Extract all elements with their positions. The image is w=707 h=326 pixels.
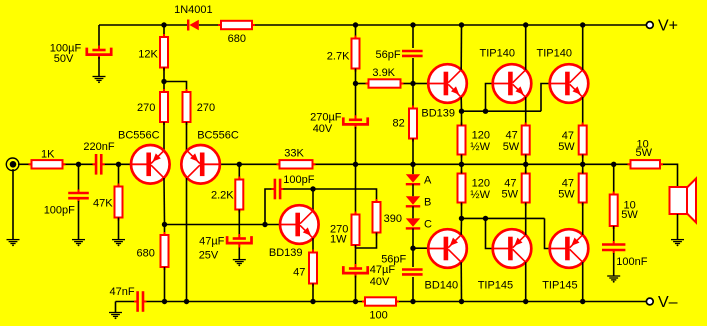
svg-text:47K: 47K [93, 198, 113, 210]
svg-text:47nF: 47nF [110, 286, 135, 298]
node BD139 collector top [310, 186, 315, 191]
wire jack to ground [12, 169, 14, 240]
svg-text:½W: ½W [470, 141, 490, 153]
wire node to BD139 upper base [413, 83, 428, 85]
resistor 1K [29, 163, 66, 165]
svg-text:100pF: 100pF [44, 205, 75, 217]
node top rail 2.7K [353, 22, 358, 27]
svg-text:40V: 40V [313, 123, 333, 135]
node 56pF bottom rail [410, 299, 415, 304]
capacitor 220nF [93, 163, 97, 165]
capacitor 100nF [613, 241, 615, 245]
node top rail TIP140-1 [523, 22, 528, 27]
node mid rail 120 [459, 162, 464, 167]
node input R1K right [76, 162, 81, 167]
wire R 47K to ground [118, 218, 120, 240]
wire C 100nF to ground [613, 253, 615, 276]
svg-text:100nF: 100nF [616, 256, 647, 268]
svg-text:40V: 40V [370, 276, 390, 288]
wire bottom V- rail [116, 301, 135, 303]
svg-text:5W: 5W [503, 141, 520, 153]
resistor 680 bottom [164, 232, 166, 270]
node 2.7K bottom [353, 81, 358, 86]
node 220nF right [116, 162, 121, 167]
wire BD140 emitter up to node [460, 218, 462, 234]
capacitor 100pF input [78, 190, 80, 194]
svg-text:V+: V+ [658, 18, 678, 35]
wire R 82 to mid rail [412, 139, 414, 165]
wire R 680 to bottom rail [164, 267, 166, 302]
diode 1N4001 [187, 20, 189, 31]
terminal V- [646, 298, 653, 305]
wire BD139 collector to rail [460, 25, 462, 70]
svg-text:1W: 1W [330, 234, 347, 246]
capacitor 56pF bottom [402, 268, 423, 271]
capacitor 270uF 40V [355, 115, 357, 120]
wire down to TIP145-1 base [486, 218, 493, 248]
node BD140 base [410, 246, 415, 251]
wire rail to R 12K [163, 25, 165, 37]
wire R 3.9K to 56pF node [402, 83, 413, 85]
node bottom rail TIP145-1 [523, 299, 528, 304]
node bottom rail BD140 [459, 299, 464, 304]
wire R 12K to node [163, 68, 165, 82]
wire rail to C 56pF top [412, 25, 414, 48]
node mid rail diodes [410, 162, 415, 167]
resistor 100 [362, 301, 399, 303]
svg-text:47µF: 47µF [199, 236, 225, 248]
wire node down to R 680 [164, 225, 166, 236]
wire 47 bot second to TIP145-2 emitter [582, 203, 584, 235]
svg-text:680: 680 [137, 248, 155, 260]
node 47 bottom rail [310, 299, 315, 304]
node TIP145 base branch [483, 216, 488, 221]
svg-text:TIP140: TIP140 [537, 48, 572, 60]
resistor 47 [312, 250, 314, 287]
capacitor 100uF 50V [98, 46, 100, 51]
wire 47 top first to mid rail [525, 155, 527, 165]
ground under speaker [671, 239, 684, 241]
wire 390 to bootstrap node [356, 233, 377, 249]
resistor 120 half-watt bottom [461, 171, 463, 206]
wire mid rail to 47 bot first [525, 164, 527, 173]
wire R 2.2K to C 47uF [238, 210, 240, 237]
svg-text:3.9K: 3.9K [372, 67, 395, 79]
resistor 47K [118, 184, 120, 221]
resistor 390 [376, 199, 378, 236]
resistor 47 5W top second [582, 123, 584, 158]
svg-text:TIP145: TIP145 [478, 279, 513, 291]
svg-text:B: B [424, 197, 431, 209]
transistor TIP140 first [493, 64, 532, 103]
node 100pF branch [262, 222, 267, 227]
wire 100pF branch up [265, 189, 272, 225]
node top rail x164 [161, 22, 166, 27]
ground under 100uF [93, 76, 106, 78]
wire 270 left to Q1 emitter [163, 122, 165, 151]
svg-text:A: A [424, 175, 432, 187]
svg-text:C: C [424, 219, 432, 231]
wire node to C 270uF [355, 84, 357, 118]
wire input/output mid rail [18, 163, 32, 165]
svg-text:5W: 5W [636, 147, 653, 159]
svg-text:12K: 12K [138, 48, 158, 60]
wire top V+ rail [99, 24, 187, 26]
svg-text:82: 82 [393, 117, 405, 129]
wire Q1 collector down [163, 178, 166, 225]
ground under 100pF [72, 239, 85, 241]
node bottom rail TIP145-2 [580, 299, 585, 304]
svg-text:33K: 33K [284, 148, 304, 160]
wire mid rail to R 270 1W [355, 164, 357, 214]
svg-text:100: 100 [369, 310, 387, 322]
svg-text:56pF: 56pF [376, 49, 401, 61]
wire R 270 1W to C 47uF 40V [355, 245, 357, 266]
wire R 47 to bottom rail [312, 284, 314, 302]
transistor BD139 lower [280, 205, 319, 244]
wire ground stub to 47nF [115, 302, 117, 313]
wire 47 top second to mid rail [582, 155, 584, 165]
wire node down to R 47K [118, 164, 120, 186]
node mid rail 47-2 [580, 162, 585, 167]
node Q2 collector rail [184, 299, 189, 304]
resistor 2.2K [238, 177, 240, 213]
svg-text:270: 270 [197, 102, 215, 114]
wire down to BD139 collector [312, 189, 314, 211]
wire TIP145-2 collector to rail [582, 262, 584, 301]
ground under 100nF [607, 275, 620, 277]
wire 120 top to mid rail [461, 155, 463, 165]
wire collector node to 390 [313, 189, 377, 202]
wire rail to R 2.2K [238, 164, 240, 179]
wire speaker to ground [677, 214, 679, 240]
wire TIP140-1 emitter to R 47 [525, 97, 527, 125]
transistor TIP140 second [550, 64, 589, 103]
svg-text:2.2K: 2.2K [211, 190, 234, 202]
wire C 100uF to ground [98, 57, 100, 77]
node 680 bottom rail [162, 299, 167, 304]
wire BD140 collector to rail [460, 262, 462, 301]
node top rail TIP140-2 [580, 22, 585, 27]
wire R 10 to C 100nF [613, 226, 615, 241]
svg-text:BD139: BD139 [269, 247, 303, 259]
wire node to right 270 branch [164, 82, 187, 93]
transistor BD139 upper [428, 64, 467, 103]
node 12K bottom [161, 79, 166, 84]
wire 120 top to node [461, 113, 463, 126]
capacitor 100pF mid [271, 188, 275, 190]
node 3.9K right [410, 81, 415, 86]
wire rail to diode A [412, 164, 414, 174]
svg-text:56pF: 56pF [381, 253, 406, 265]
wire C 47uF 40V to bottom rail [355, 276, 357, 302]
wire node down to C 100pF [78, 164, 80, 190]
transistor BC556C Q1 [131, 145, 170, 184]
wire TIP140-2 collector to rail [582, 25, 584, 70]
wire C 47uF to ground [238, 248, 240, 260]
transistor BC556C Q2 [181, 145, 220, 184]
svg-text:1K: 1K [41, 148, 55, 160]
svg-text:1N4001: 1N4001 [174, 4, 213, 16]
diode B [406, 196, 420, 204]
terminal V+ [646, 22, 653, 29]
input jack [6, 158, 19, 171]
svg-text:270: 270 [137, 102, 155, 114]
resistor 47 5W bottom first [525, 171, 527, 206]
svg-text:TIP145: TIP145 [542, 280, 577, 292]
resistor 12K [163, 34, 165, 71]
node drivers base left [459, 109, 464, 114]
svg-text:½W: ½W [470, 189, 490, 201]
node mid rail bootstrap [353, 162, 358, 167]
svg-text:25V: 25V [199, 249, 219, 261]
ground under 47uF 25V [233, 259, 246, 261]
svg-text:2.7K: 2.7K [327, 51, 350, 63]
svg-text:47: 47 [293, 267, 305, 279]
wire diode A to B [412, 184, 414, 196]
capacitor 47uF 40V [355, 264, 357, 269]
wire mid rail to 47 bot second [582, 164, 584, 173]
svg-text:TIP140: TIP140 [480, 48, 515, 60]
capacitor 47uF 25V [238, 234, 240, 239]
wire R 2.7K to node [355, 69, 357, 84]
svg-text:47: 47 [506, 129, 518, 141]
wire C 56pF to node [412, 58, 414, 84]
node Q1 collector [162, 222, 167, 227]
capacitor 56pF top [402, 50, 423, 53]
wire C 100pF to ground [78, 201, 80, 240]
transistor BD140 [428, 229, 467, 268]
diode A [406, 174, 420, 182]
ground under jack [7, 239, 20, 241]
wire 47 bot first to TIP145-1 emitter [525, 203, 527, 235]
resistor 47 5W top first [525, 123, 527, 158]
diode C [406, 218, 420, 226]
node top rail 56pF [410, 22, 415, 27]
resistor 680 top [218, 24, 255, 26]
wire output corner to speaker [660, 164, 678, 187]
svg-text:220nF: 220nF [83, 141, 114, 153]
node mid rail 2.2K [237, 162, 242, 167]
svg-text:BD140: BD140 [425, 279, 459, 291]
svg-text:5W: 5W [558, 141, 575, 153]
wire 120 bottom to node [461, 203, 463, 219]
wire diode C to node [412, 228, 414, 248]
svg-text:680: 680 [228, 33, 246, 45]
svg-text:390: 390 [384, 213, 402, 225]
resistor 270 left [163, 89, 165, 125]
ground under 47K [112, 239, 125, 241]
wire Q2 collector down [186, 178, 188, 302]
wire 100pF to collector node [283, 188, 313, 190]
resistor 33K [277, 163, 316, 165]
svg-text:120: 120 [472, 129, 490, 141]
ground bottom left [109, 312, 122, 314]
wire outputs base bus [462, 217, 545, 219]
svg-text:100pF: 100pF [283, 174, 314, 186]
wire up to TIP140-2 base [541, 84, 550, 112]
node mid rail 47-1 [523, 162, 528, 167]
wire BD139 emitter to node [460, 97, 462, 111]
node 47uF 40V bottom rail [353, 299, 358, 304]
wire C 270uF to mid rail [355, 127, 357, 164]
resistor 47 5W bottom second [582, 171, 584, 206]
wire node down to left 270 [163, 82, 165, 93]
svg-text:47µF: 47µF [370, 264, 396, 276]
wire rail to R 2.7K [355, 25, 357, 39]
wire TIP145-1 collector to rail [525, 262, 527, 301]
resistor 270 1W [355, 212, 357, 249]
resistor 2.7K [355, 36, 357, 72]
node outputs base left [459, 216, 464, 221]
wire node to BD140 base [413, 247, 428, 249]
svg-text:50V: 50V [54, 53, 74, 65]
wire drivers base bus [462, 110, 542, 112]
svg-text:V–: V– [658, 294, 678, 311]
wire down to TIP145-2 base [545, 218, 550, 248]
node mid rail zobel [611, 162, 616, 167]
resistor 270 right [186, 89, 188, 125]
resistor 3.9K [366, 83, 404, 85]
svg-text:BC556C: BC556C [197, 130, 239, 142]
resistor 10 5W horizontal [628, 163, 664, 165]
svg-text:120: 120 [472, 178, 490, 190]
wire node down to R 82 [412, 84, 414, 109]
wire diode B to C [412, 206, 414, 218]
svg-text:BD139: BD139 [421, 107, 455, 119]
svg-text:270µF: 270µF [310, 111, 342, 123]
wire V+ rail down to C 100uF [98, 25, 100, 48]
resistor 10 5W vertical [613, 192, 615, 230]
node TIP140 base branch [483, 109, 488, 114]
wire mid rail to 120 bottom [461, 164, 463, 173]
wire node to C 56pF bottom [412, 248, 414, 267]
transistor TIP145 first [493, 229, 532, 268]
speaker [670, 187, 688, 214]
wire 2.7K node to R 3.9K [356, 83, 368, 85]
resistor 120 half-watt top [461, 123, 463, 158]
wire up to TIP140-1 base [486, 84, 493, 112]
wire mid rail to R 10 5W vert [613, 164, 615, 194]
node top rail BD139 [459, 22, 464, 27]
wire 270 right to Q2 emitter [186, 122, 188, 151]
svg-text:BC556C: BC556C [118, 130, 160, 142]
svg-text:5W: 5W [621, 209, 638, 221]
wire TIP140-2 emitter to R 47 [582, 97, 584, 125]
wire BD139 emitter to R 47 [312, 238, 314, 252]
svg-text:5W: 5W [558, 189, 575, 201]
svg-text:5W: 5W [502, 189, 519, 201]
wire C 56pF bottom to rail [412, 277, 414, 302]
transistor TIP145 second [550, 229, 589, 268]
wire TIP140-1 collector to rail [525, 25, 527, 70]
resistor 82 [412, 106, 414, 142]
capacitor 47nF [134, 301, 138, 303]
wire node to BD139 base [165, 224, 280, 226]
